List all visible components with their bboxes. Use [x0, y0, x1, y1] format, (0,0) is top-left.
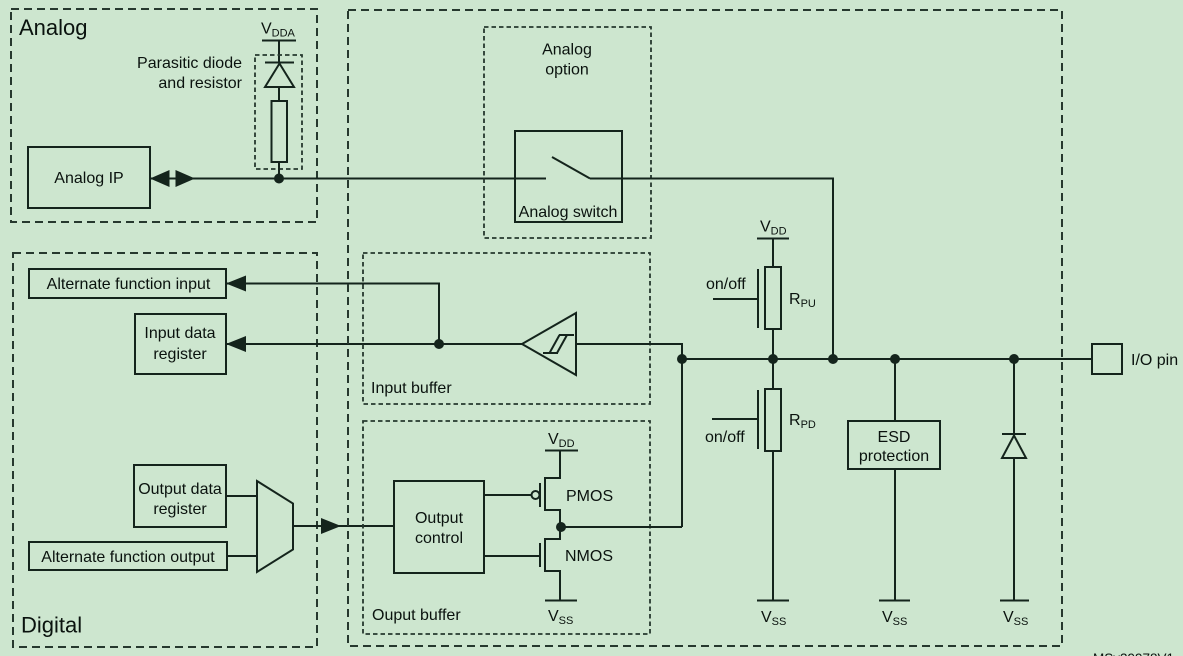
- wire alternate function output to mux: [227, 555, 257, 557]
- svg-text:register: register: [153, 501, 207, 518]
- node main junction (pull column): [768, 354, 778, 364]
- wire output data register to mux: [226, 495, 257, 497]
- block I/O pin: [1092, 344, 1178, 374]
- region Ouput buffer (dashed): [363, 421, 650, 634]
- svg-text:Ouput buffer: Ouput buffer: [372, 607, 461, 624]
- wire diode to resistor: [278, 87, 280, 101]
- node main junction (schmitt column): [677, 354, 687, 364]
- resistor RPD (pull-down with on/off gate): [712, 359, 781, 601]
- svg-text:option: option: [545, 62, 589, 79]
- svg-text:VDD: VDD: [548, 431, 575, 450]
- schmitt trigger (input buffer): [522, 313, 576, 375]
- svg-text:Analog switch: Analog switch: [519, 204, 618, 221]
- node main junction (analog column): [828, 354, 838, 364]
- svg-text:VSS: VSS: [761, 609, 786, 628]
- svg-text:Input buffer: Input buffer: [371, 380, 452, 397]
- svg-text:Output: Output: [415, 510, 464, 527]
- region Analog option (dashed): [484, 27, 651, 238]
- transistor PMOS: [484, 451, 560, 528]
- wire main line to ESD: [894, 359, 896, 421]
- svg-text:on/off: on/off: [705, 429, 745, 446]
- block Output data register: [134, 465, 226, 527]
- svg-text:RPD: RPD: [789, 412, 816, 431]
- region Analog (dashed enclosure): [11, 9, 317, 222]
- arrow into Alternate function input: [226, 276, 246, 292]
- wire analog line (switch to main line): [590, 179, 833, 360]
- resistor R parasitic: [272, 101, 288, 162]
- power VDD (pull-up): [757, 219, 789, 268]
- svg-text:VSS: VSS: [548, 608, 573, 627]
- power VDDA: [261, 21, 296, 64]
- svg-text:control: control: [415, 530, 463, 547]
- svg-text:PMOS: PMOS: [566, 488, 613, 505]
- arrow into Input data register: [226, 336, 246, 352]
- diode D parasitic (to VDDA): [265, 63, 294, 88]
- node main junction (diode column): [1009, 354, 1019, 364]
- mux (output select): [257, 481, 293, 572]
- bidirectional arrow Analog IP: [150, 170, 196, 187]
- wire alternate function input: [226, 284, 439, 345]
- svg-text:and resistor: and resistor: [158, 75, 242, 92]
- block Analog switch: [515, 131, 622, 222]
- svg-text:Output data: Output data: [138, 481, 222, 498]
- svg-text:Alternate function input: Alternate function input: [47, 276, 211, 293]
- switch blade (open): [552, 157, 590, 179]
- power VSS (ESD): [879, 601, 910, 629]
- block Analog IP: [28, 147, 150, 208]
- block Alternate function output: [29, 542, 227, 570]
- resistor RPU (pull-up with on/off gate): [713, 267, 781, 359]
- wire schmitt output to main line: [576, 344, 682, 527]
- arrowhead mux output: [321, 518, 341, 534]
- svg-text:VDD: VDD: [760, 219, 787, 238]
- svg-text:Input data: Input data: [144, 325, 215, 342]
- svg-text:I/O pin: I/O pin: [1131, 352, 1178, 369]
- node output (PMOS/NMOS drains): [556, 522, 566, 532]
- region Input buffer (dashed): [363, 253, 650, 404]
- wire clamp diode to VSS: [1013, 458, 1015, 601]
- region Digital (dashed enclosure): [13, 253, 317, 647]
- svg-text:Analog IP: Analog IP: [54, 170, 123, 187]
- svg-text:Digital: Digital: [21, 613, 82, 638]
- svg-text:protection: protection: [859, 448, 929, 465]
- transistor NMOS: [484, 527, 560, 601]
- power VSS (NMOS): [545, 601, 577, 628]
- svg-text:MSv39978V1: MSv39978V1: [1093, 651, 1174, 656]
- block Output control: [394, 481, 484, 573]
- power VSS (clamp diode): [1000, 601, 1029, 629]
- svg-text:on/off: on/off: [706, 276, 746, 293]
- node main junction (ESD column): [890, 354, 900, 364]
- wire resistor to analog line: [278, 162, 280, 179]
- parasitic enclosure (dashed): [255, 55, 302, 169]
- block Input data register: [135, 314, 226, 374]
- wire main line to clamp diode: [1013, 359, 1015, 434]
- block ESD protection: [848, 421, 940, 469]
- node input line junction: [434, 339, 444, 349]
- wire output node to main vertical: [561, 526, 682, 528]
- svg-text:VDDA: VDDA: [261, 21, 296, 40]
- wire mux to output control: [293, 525, 394, 527]
- svg-text:VSS: VSS: [882, 609, 907, 628]
- region main I/O structure (big dashed enclosure): [348, 10, 1062, 646]
- node analog junction: [274, 174, 284, 184]
- power VDD (PMOS): [545, 431, 578, 451]
- power VSS (pull-down): [757, 601, 789, 629]
- wire ESD to VSS: [894, 469, 896, 601]
- wire main I/O line: [682, 358, 1092, 360]
- block Alternate function input: [29, 269, 226, 298]
- svg-text:VSS: VSS: [1003, 609, 1028, 628]
- wire analog line (Analog IP to switch): [195, 178, 546, 180]
- wire input line (register to schmitt): [226, 343, 523, 345]
- svg-text:Alternate function output: Alternate function output: [41, 549, 215, 566]
- svg-text:Parasitic diode: Parasitic diode: [137, 55, 242, 72]
- svg-text:Analog: Analog: [19, 15, 88, 40]
- svg-text:ESD: ESD: [878, 429, 911, 446]
- svg-text:Analog: Analog: [542, 42, 592, 59]
- svg-text:RPU: RPU: [789, 291, 816, 310]
- svg-text:NMOS: NMOS: [565, 548, 613, 565]
- diode D clamp (to VSS): [1002, 434, 1026, 458]
- hysteresis symbol: [543, 335, 574, 353]
- svg-text:register: register: [153, 346, 207, 363]
